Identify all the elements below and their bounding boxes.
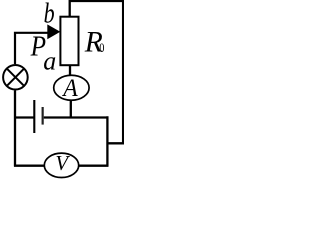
svg-text:V: V — [55, 151, 70, 175]
svg-text:0: 0 — [99, 41, 104, 55]
svg-text:b: b — [44, 0, 55, 29]
svg-text:a: a — [43, 47, 56, 76]
svg-text:A: A — [61, 74, 78, 102]
